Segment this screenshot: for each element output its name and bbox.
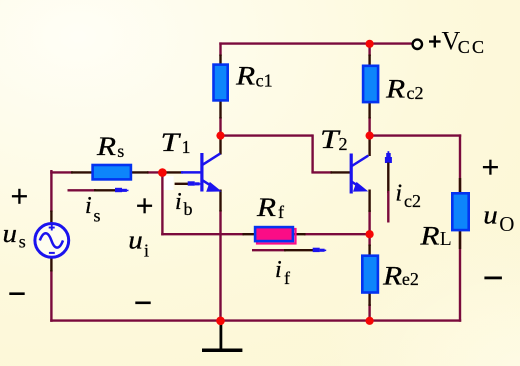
svg-text:T: T: [161, 128, 181, 157]
svg-text:f: f: [284, 268, 290, 288]
svg-text:i: i: [395, 181, 402, 207]
svg-text:CC: CC: [458, 37, 486, 57]
svg-text:R: R: [256, 193, 276, 222]
svg-text:s: s: [94, 206, 101, 226]
svg-text:i: i: [144, 241, 149, 261]
svg-text:R: R: [382, 262, 402, 291]
svg-text:s: s: [117, 141, 124, 161]
svg-text:1: 1: [182, 137, 191, 157]
svg-text:u: u: [128, 225, 143, 254]
svg-text:L: L: [440, 229, 452, 250]
svg-text:R: R: [96, 132, 116, 161]
svg-text:c1: c1: [256, 71, 273, 91]
svg-text:i: i: [275, 257, 282, 283]
svg-text:2: 2: [339, 134, 348, 154]
svg-text:O: O: [499, 212, 514, 236]
svg-text:c2: c2: [407, 83, 424, 103]
svg-text:i: i: [175, 189, 182, 215]
svg-text:u: u: [483, 200, 498, 229]
svg-text:i: i: [85, 193, 92, 219]
svg-text:c2: c2: [404, 191, 421, 211]
svg-text:s: s: [19, 231, 26, 251]
svg-text:u: u: [3, 219, 18, 248]
svg-text:T: T: [320, 125, 340, 154]
svg-text:b: b: [184, 199, 193, 219]
svg-text:R: R: [419, 222, 439, 251]
svg-text:f: f: [278, 202, 284, 222]
svg-text:R: R: [235, 61, 255, 90]
svg-text:R: R: [385, 74, 405, 103]
svg-text:e2: e2: [402, 269, 419, 289]
